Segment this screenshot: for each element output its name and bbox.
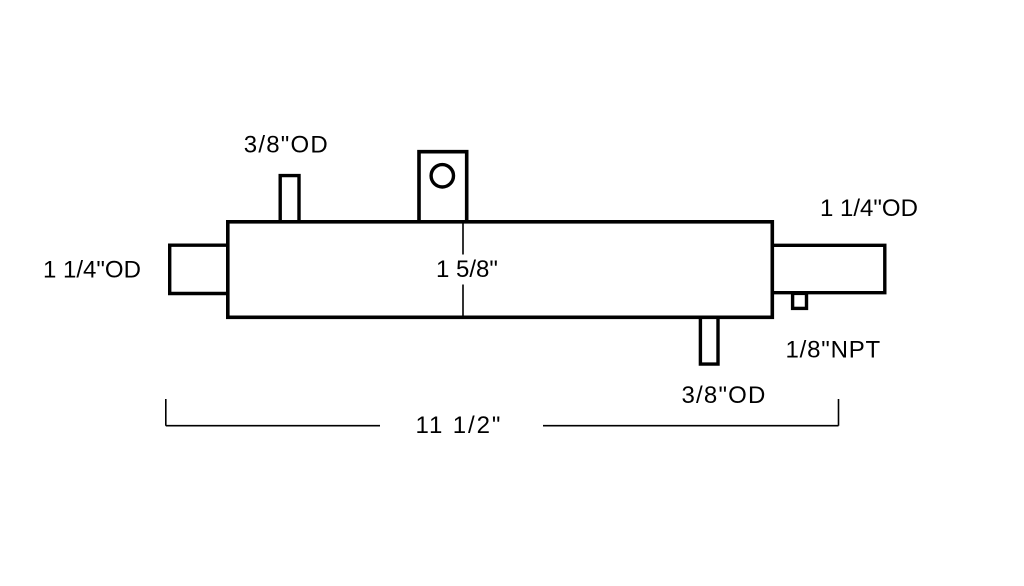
svg-text:1 1/4"OD: 1 1/4"OD bbox=[820, 195, 918, 222]
svg-text:11 1/2": 11 1/2" bbox=[416, 412, 503, 439]
svg-text:1/8"NPT: 1/8"NPT bbox=[786, 337, 881, 364]
svg-text:3/8"OD: 3/8"OD bbox=[682, 382, 767, 409]
svg-text:1 5/8": 1 5/8" bbox=[436, 256, 498, 283]
svg-text:3/8"OD: 3/8"OD bbox=[244, 132, 329, 159]
svg-text:1 1/4"OD: 1 1/4"OD bbox=[43, 257, 141, 284]
